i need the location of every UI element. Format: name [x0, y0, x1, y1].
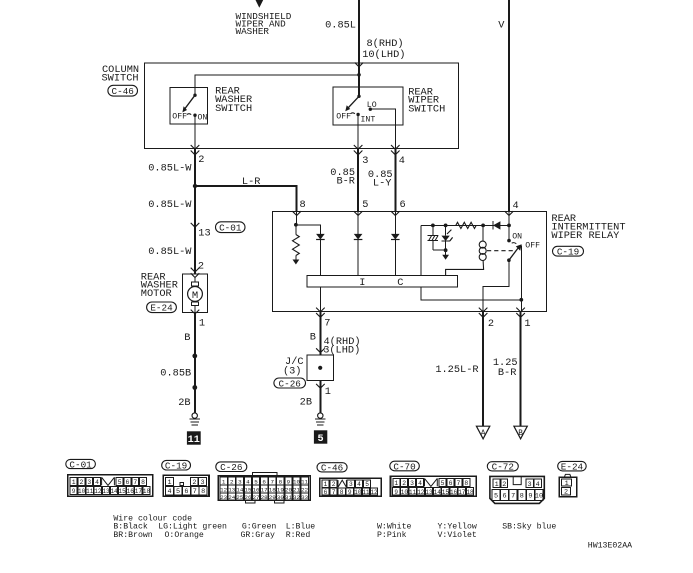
relay coil K1	[479, 225, 486, 260]
svg-text:12: 12	[370, 489, 378, 496]
svg-text:2B: 2B	[300, 396, 312, 408]
dashed actuation link	[487, 250, 517, 252]
svg-text:18: 18	[466, 489, 474, 496]
resistor R2	[456, 222, 476, 228]
svg-text:17: 17	[261, 486, 269, 493]
surge absorber Z1	[428, 225, 439, 250]
svg-text:1: 1	[72, 479, 76, 486]
svg-text:14: 14	[434, 489, 442, 496]
svg-text:11: 11	[86, 488, 94, 495]
svg-text:0.85B: 0.85B	[160, 368, 191, 380]
wire 0.85L-W pin2 down	[194, 149, 196, 186]
ground symbol relay pin7	[315, 413, 326, 425]
svg-text:L-R: L-R	[242, 176, 261, 188]
svg-text:5: 5	[362, 199, 368, 211]
svg-text:6: 6	[503, 492, 507, 500]
svg-text:1.25L-R: 1.25L-R	[435, 364, 478, 376]
svg-text:0.85L-W: 0.85L-W	[148, 162, 192, 174]
wire INT to pin 3	[357, 115, 359, 149]
svg-text:E-24: E-24	[150, 303, 173, 314]
svg-text:7: 7	[332, 489, 336, 496]
wire IC to pin1	[421, 287, 521, 300]
svg-text:L-Y: L-Y	[373, 178, 392, 190]
connector arrow relay pin 5	[354, 211, 363, 215]
svg-text:9: 9	[287, 478, 291, 485]
column switch box	[145, 63, 459, 149]
svg-text:B: B	[518, 430, 523, 438]
rear washer motor box E-24	[182, 274, 207, 312]
rear wiper switch box	[333, 87, 403, 125]
svg-text:C-26: C-26	[220, 462, 242, 473]
node pin1 junction	[519, 298, 523, 302]
wire 0.85B-R pin3 to relay pin5	[357, 149, 359, 212]
connector C-19 code label	[162, 460, 191, 470]
svg-text:3: 3	[410, 480, 414, 487]
svg-text:20: 20	[285, 486, 293, 493]
svg-text:A: A	[481, 430, 486, 438]
wire relay pin4 internal	[508, 211, 510, 240]
svg-text:HW13E02AA: HW13E02AA	[588, 542, 632, 551]
svg-text:28: 28	[261, 494, 269, 501]
svg-text:2: 2	[502, 481, 506, 489]
connector arrows pin 3	[354, 145, 363, 149]
svg-text:3: 3	[87, 479, 91, 486]
node splice L-R	[193, 184, 197, 188]
svg-text:P:Pink: P:Pink	[377, 530, 407, 540]
svg-text:3: 3	[200, 479, 204, 487]
node splice 2	[192, 385, 197, 390]
svg-text:1: 1	[524, 318, 530, 330]
connector C-46 pinout	[320, 478, 382, 496]
node relay pin8 junction	[294, 223, 298, 227]
svg-text:I: I	[359, 277, 365, 289]
node bus-pin4 junction	[507, 224, 511, 228]
wire 0.85L-W to rear washer motor	[194, 186, 196, 274]
switch rear washer: common node	[193, 94, 196, 97]
svg-text:10(LHD): 10(LHD)	[362, 49, 405, 61]
svg-text:9: 9	[72, 488, 76, 495]
svg-text:6: 6	[262, 478, 266, 485]
svg-text:C-72: C-72	[492, 462, 514, 473]
connector arrow relay pin 4	[505, 211, 514, 215]
label 1.25 B-R	[493, 357, 518, 379]
node bus-zener junction	[444, 224, 448, 228]
label COLUMN SWITCH	[102, 64, 140, 85]
svg-text:5: 5	[176, 488, 180, 496]
svg-text:6: 6	[324, 489, 328, 496]
svg-text:SWITCH: SWITCH	[408, 104, 445, 116]
motor M1 lead top	[194, 278, 196, 283]
svg-text:25: 25	[236, 494, 244, 501]
wire B motor to ground	[194, 312, 196, 413]
label 0.85 B-R	[330, 167, 355, 188]
connector arrows relay pin 1	[516, 308, 525, 312]
svg-text:C-19: C-19	[165, 461, 187, 472]
wire relay pin6 internal	[394, 211, 396, 234]
IC hybrid circuit	[307, 276, 457, 287]
svg-text:ON: ON	[198, 114, 208, 123]
svg-text:18: 18	[269, 486, 277, 493]
svg-text:C: C	[397, 277, 403, 289]
svg-text:C-70: C-70	[393, 461, 415, 472]
wire D3 to IC	[394, 240, 396, 276]
svg-text:OFF: OFF	[525, 241, 540, 250]
svg-text:5: 5	[254, 478, 258, 485]
svg-text:9: 9	[348, 489, 352, 496]
svg-text:5: 5	[441, 480, 445, 487]
connector C-01 code label	[66, 459, 96, 468]
connector C-26 pinout	[218, 473, 310, 503]
wire D1 to IC	[319, 240, 321, 276]
svg-text:8: 8	[279, 478, 283, 485]
motor M1 lead bottom	[194, 305, 196, 312]
rear washer switch box	[170, 87, 208, 124]
wire relay pin8 internal	[296, 211, 298, 225]
wire coil return to IC	[446, 261, 484, 276]
connector C-01 pinout	[68, 475, 153, 497]
svg-text:2: 2	[402, 480, 406, 487]
svg-text:8: 8	[141, 479, 145, 486]
label 0.85 L-Y	[368, 169, 393, 190]
svg-text:10: 10	[293, 478, 301, 485]
connector arrows motor pin 2	[191, 268, 200, 272]
svg-text:SB:Sky blue: SB:Sky blue	[502, 522, 556, 532]
svg-text:INT: INT	[361, 115, 376, 124]
svg-text:5: 5	[318, 434, 324, 445]
svg-text:2: 2	[192, 479, 196, 487]
svg-text:BR:Brown: BR:Brown	[113, 531, 152, 540]
label REAR WIPER SWITCH	[408, 86, 445, 115]
svg-text:1: 1	[199, 317, 205, 329]
wire pivot to pin2	[483, 260, 509, 311]
svg-text:12: 12	[417, 489, 425, 496]
connector arrows relay pin 7	[316, 308, 325, 312]
node bus-zena junction	[431, 224, 435, 228]
svg-text:16: 16	[253, 486, 261, 493]
joint connector J/C (3) C-26	[307, 355, 334, 381]
connector code C-26	[274, 378, 306, 388]
rear intermittent wiper relay box C-19	[272, 211, 546, 311]
svg-text:C-26: C-26	[279, 378, 301, 389]
svg-text:6: 6	[126, 479, 130, 486]
svg-text:23: 23	[220, 494, 228, 501]
svg-text:O:Orange: O:Orange	[165, 531, 204, 540]
svg-text:2: 2	[198, 260, 204, 272]
svg-text:WIPER RELAY: WIPER RELAY	[551, 230, 619, 242]
connector C-46 code label	[317, 463, 347, 472]
wire OFF to pin1	[520, 246, 522, 312]
svg-text:1: 1	[394, 480, 398, 487]
switch rear washer: tilde	[187, 113, 191, 116]
connector E-24 code label	[558, 461, 587, 471]
connector arrows pin 2	[191, 145, 200, 149]
svg-text:31: 31	[285, 494, 293, 501]
svg-text:1: 1	[168, 479, 172, 487]
svg-text:7: 7	[511, 492, 515, 500]
wire 0.85L-Y pin4 to relay pin6	[394, 149, 396, 212]
svg-text:5: 5	[494, 492, 498, 500]
svg-text:24: 24	[228, 494, 236, 501]
svg-text:18: 18	[143, 488, 151, 495]
svg-text:13: 13	[228, 486, 236, 493]
ground symbol motor	[189, 413, 200, 425]
svg-text:15: 15	[244, 486, 252, 493]
svg-text:2: 2	[332, 481, 336, 488]
svg-text:14: 14	[110, 488, 118, 495]
svg-text:2B: 2B	[178, 397, 190, 409]
svg-text:6: 6	[400, 199, 406, 211]
label REAR INTERMITTENT WIPER RELAY	[551, 213, 625, 242]
connector C-19 pinout	[163, 475, 209, 496]
connector code C-01	[216, 222, 246, 233]
svg-text:15: 15	[442, 489, 450, 496]
svg-text:WASHER: WASHER	[236, 26, 270, 37]
svg-text:9: 9	[394, 489, 398, 496]
node zener join	[444, 248, 448, 252]
wire B relay pin7 down	[319, 311, 321, 355]
svg-text:7: 7	[133, 479, 137, 486]
switch pivot node	[507, 258, 511, 262]
svg-text:ON: ON	[512, 233, 522, 242]
wire 1.25L-R relay pin2 down	[482, 311, 484, 426]
svg-text:1: 1	[324, 481, 328, 488]
svg-text:16: 16	[127, 488, 135, 495]
svg-text:1: 1	[565, 480, 569, 488]
svg-text:C-01: C-01	[69, 459, 92, 470]
svg-text:3: 3	[238, 478, 242, 485]
diode D3	[391, 234, 400, 240]
svg-text:13: 13	[425, 489, 433, 496]
switch contact ON terminal	[507, 239, 511, 243]
svg-text:19: 19	[277, 486, 285, 493]
svg-text:OFF: OFF	[336, 112, 351, 121]
svg-text:9: 9	[528, 492, 532, 500]
svg-text:4: 4	[357, 481, 361, 488]
zener diode D4	[441, 225, 452, 250]
connector arrow J/C out pin 1	[316, 384, 325, 388]
svg-text:3: 3	[528, 481, 532, 489]
svg-text:0.85L: 0.85L	[325, 20, 356, 32]
svg-text:B: B	[184, 332, 190, 344]
connector code E-24	[147, 302, 177, 313]
wire V feed from fuse	[508, 0, 510, 211]
svg-text:3: 3	[362, 155, 368, 167]
svg-text:4: 4	[536, 481, 540, 489]
svg-text:10: 10	[535, 492, 543, 500]
wire rear washer ON to pin 2	[194, 115, 196, 149]
label REAR WASHER MOTOR	[141, 271, 178, 299]
node splice 1	[192, 354, 197, 359]
svg-text:6: 6	[449, 480, 453, 487]
diode D5	[493, 221, 501, 229]
wire IC to pin7	[319, 287, 321, 311]
diode D2	[354, 234, 363, 240]
off-page arrow B	[514, 426, 527, 439]
svg-text:4: 4	[399, 155, 405, 167]
svg-text:17: 17	[135, 488, 143, 495]
wire Z1 to D4 join	[433, 249, 446, 251]
connector arrow into column switch pin 8(RHD)/10(LHD)	[355, 63, 364, 67]
resistor R1	[295, 225, 297, 235]
connector arrow motor pin 1	[191, 310, 200, 314]
svg-text:8(RHD): 8(RHD)	[367, 38, 404, 50]
svg-text:14: 14	[236, 486, 244, 493]
wire LO to pin 4	[370, 109, 395, 149]
switch tilde	[512, 243, 517, 244]
svg-text:5: 5	[118, 479, 122, 486]
wire colour code legend	[113, 514, 556, 540]
svg-text:21: 21	[293, 486, 301, 493]
switch rear washer: ON terminal	[193, 114, 196, 117]
wire pin8 to diode D1	[296, 225, 321, 234]
svg-text:12: 12	[94, 488, 102, 495]
svg-text:1: 1	[325, 386, 331, 398]
svg-text:(3): (3)	[283, 365, 302, 377]
svg-text:6: 6	[184, 488, 188, 496]
motor M1 brush top	[191, 282, 198, 286]
svg-text:8: 8	[300, 199, 306, 211]
svg-text:4: 4	[246, 478, 250, 485]
label WINDSHIELD WIPER AND WASHER	[236, 11, 292, 37]
ground point 5	[314, 430, 327, 445]
node washer branch junction	[357, 73, 361, 77]
svg-text:1: 1	[222, 478, 226, 485]
connector C-72 pinout	[490, 476, 544, 503]
diode D1	[316, 234, 325, 240]
svg-text:10: 10	[401, 489, 409, 496]
connector C-26 code label	[216, 462, 247, 472]
wire J/C to ground	[319, 381, 321, 413]
arrow internal termination zener	[445, 250, 447, 255]
svg-text:B-R: B-R	[336, 176, 355, 188]
svg-text:11: 11	[409, 489, 417, 496]
svg-text:4: 4	[418, 480, 422, 487]
wire L-R to relay pin 8	[195, 186, 297, 211]
svg-text:V: V	[498, 20, 505, 32]
svg-text:GR:Gray: GR:Gray	[241, 531, 275, 540]
svg-text:10: 10	[78, 488, 86, 495]
svg-text:11: 11	[301, 478, 309, 485]
svg-text:MOTOR: MOTOR	[141, 288, 172, 300]
svg-text:2: 2	[488, 318, 494, 330]
ground point 11	[187, 431, 201, 446]
svg-text:5: 5	[365, 481, 369, 488]
svg-text:11: 11	[188, 435, 200, 446]
svg-text:OFF: OFF	[172, 113, 187, 122]
wire 0.85L from windshield wiper circuit	[358, 0, 360, 96]
svg-text:8: 8	[464, 480, 468, 487]
svg-text:7: 7	[456, 480, 460, 487]
motor M1 armature	[188, 287, 203, 302]
svg-text:C-46: C-46	[321, 463, 343, 474]
svg-text:0.85L-W: 0.85L-W	[148, 199, 192, 211]
svg-text:7: 7	[324, 318, 330, 330]
svg-text:4: 4	[513, 200, 519, 212]
wire bus to IC left	[420, 225, 422, 275]
connector E-24 pinout	[559, 474, 576, 497]
switch rear wiper: lever	[349, 96, 360, 107]
svg-text:2: 2	[230, 478, 234, 485]
svg-text:4: 4	[168, 488, 172, 496]
connector arrows pin 4	[391, 145, 400, 149]
wire supply bus	[421, 224, 509, 226]
svg-text:8: 8	[520, 492, 524, 500]
inline connector arrow C-01 pin 13	[191, 223, 200, 227]
svg-text:1: 1	[495, 481, 499, 489]
svg-text:0.85L-W: 0.85L-W	[148, 246, 192, 258]
svg-text:2: 2	[80, 479, 84, 486]
svg-text:3: 3	[349, 481, 353, 488]
svg-text:32: 32	[293, 494, 301, 501]
motor M1 brush bottom	[191, 302, 198, 305]
svg-text:33: 33	[301, 494, 309, 501]
svg-text:16: 16	[450, 489, 458, 496]
connector arrows relay pin 2	[479, 308, 488, 312]
svg-text:7: 7	[193, 488, 197, 496]
connector code C-19	[553, 246, 584, 256]
svg-text:12: 12	[220, 486, 228, 493]
svg-text:7: 7	[270, 478, 274, 485]
svg-text:C-19: C-19	[557, 247, 579, 258]
connector arrow relay pin 8	[292, 211, 301, 215]
svg-text:B-R: B-R	[498, 367, 517, 379]
connector C-70 code label	[390, 461, 420, 471]
svg-text:8: 8	[201, 488, 205, 496]
label REAR WASHER SWITCH	[215, 85, 252, 115]
svg-text:C-46: C-46	[112, 86, 134, 97]
svg-text:11: 11	[362, 489, 370, 496]
svg-text:8: 8	[340, 489, 344, 496]
connector C-72 code label	[487, 462, 518, 471]
switch rear wiper: LO terminal	[369, 108, 372, 111]
inline connector arrow J/C	[316, 348, 325, 352]
svg-text:10: 10	[354, 489, 362, 496]
svg-text:4: 4	[95, 479, 99, 486]
switch rear washer: lever	[185, 95, 195, 109]
svg-text:E-24: E-24	[561, 461, 584, 472]
svg-text:C-01: C-01	[219, 223, 242, 234]
svg-text:SWITCH: SWITCH	[102, 72, 139, 84]
svg-text:B: B	[310, 332, 316, 344]
svg-text:13: 13	[102, 488, 110, 495]
switch lever	[509, 248, 518, 260]
svg-text:2: 2	[198, 154, 204, 166]
wire 1.25B-R relay pin1 down	[520, 311, 522, 426]
connector C-70 pinout	[391, 476, 477, 496]
wire D2 to IC	[357, 240, 359, 276]
svg-text:SWITCH: SWITCH	[215, 103, 252, 115]
node bus-coil junction	[481, 224, 485, 228]
arrow internal termination R1	[293, 260, 300, 265]
svg-text:22: 22	[301, 486, 309, 493]
svg-text:2: 2	[564, 489, 568, 497]
svg-text:17: 17	[458, 489, 466, 496]
wire washer switch feed	[195, 75, 359, 95]
connector code C-46	[108, 85, 138, 96]
svg-text:R:Red: R:Red	[286, 530, 311, 540]
switch rear wiper: INT terminal	[356, 113, 359, 116]
svg-text:M: M	[192, 290, 198, 302]
switch rear wiper: common node	[357, 95, 360, 98]
svg-text:V:Violet: V:Violet	[438, 530, 477, 540]
wire relay pin5 internal	[357, 211, 359, 234]
svg-text:13: 13	[198, 227, 210, 239]
arrow to windshield wiper and washer circuit	[256, 0, 264, 8]
svg-text:15: 15	[119, 488, 127, 495]
connector arrow relay pin 6	[391, 211, 400, 215]
off-page arrow A	[476, 426, 489, 439]
